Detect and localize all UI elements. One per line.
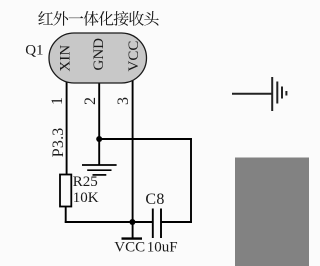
svg-text:Q1: Q1: [25, 43, 43, 59]
floating earth ground: bar 4: [285, 91, 287, 96]
capacitor C8 left plate: [152, 209, 154, 239]
ground bar long: [82, 164, 117, 166]
ground bar short: [93, 174, 107, 176]
junction dot on VCC net: [129, 219, 135, 225]
title char 一: [69, 16, 84, 18]
wire bottom horizontal left of C8: [65, 221, 152, 223]
wire bottom horizontal right of C8: [161, 221, 192, 223]
floating earth ground: bar 1: [271, 77, 273, 111]
svg-text:VCC: VCC: [126, 41, 142, 72]
svg-text:P3.3: P3.3: [50, 128, 67, 158]
gray panel: [235, 158, 309, 266]
VCC power bar: [122, 237, 143, 239]
junction dot on GND net: [96, 136, 102, 142]
title char 化: [98, 11, 113, 26]
svg-text:VCC: VCC: [114, 239, 145, 255]
floating earth ground: bar 2: [276, 82, 278, 104]
ground bar mid: [87, 169, 111, 171]
title 红外一体化接收头 (drawn as glyph outlines): [38, 11, 159, 26]
title char 头: [144, 11, 159, 26]
svg-text:10uF: 10uF: [147, 239, 178, 255]
svg-text:2: 2: [82, 97, 99, 105]
capacitor C8 right plate: [160, 209, 162, 239]
wire resistor bottom: [65, 207, 67, 223]
wire pin1 XIN vertical: [66, 78, 68, 175]
svg-text:1: 1: [49, 97, 66, 105]
receiver Q1 body: [49, 33, 147, 83]
title char 外: [53, 11, 68, 26]
wire pin2 GND vertical: [98, 78, 100, 140]
svg-text:XIN: XIN: [57, 45, 73, 72]
title char 收: [129, 11, 144, 26]
svg-text:3: 3: [115, 97, 132, 105]
wire right loop vertical: [190, 138, 192, 223]
wire pin3 VCC vertical: [132, 78, 134, 238]
svg-text:R25: R25: [73, 174, 98, 190]
svg-text:GND: GND: [91, 38, 107, 71]
ground stem: [98, 139, 100, 165]
wire GND horizontal to right loop: [99, 138, 192, 140]
svg-text:10K: 10K: [73, 190, 99, 206]
floating earth ground: bar 3: [281, 87, 283, 99]
floating earth ground: lead: [232, 93, 272, 95]
title char 红: [38, 11, 53, 25]
title char 接: [114, 11, 129, 26]
svg-text:C8: C8: [145, 191, 164, 208]
title char 体: [84, 11, 99, 26]
resistor R25 body: [60, 175, 71, 207]
